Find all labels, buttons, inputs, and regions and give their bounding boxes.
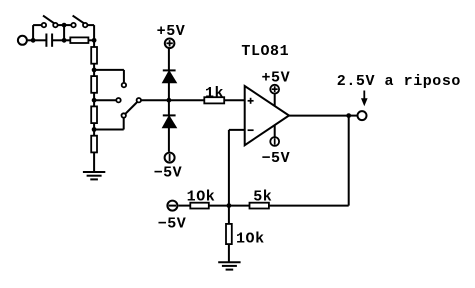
wire D1 to +5V	[168, 49, 170, 71]
tap1 wire down	[123, 70, 125, 82]
wire op-amp output to node E	[289, 115, 349, 117]
tap3 junction	[92, 127, 97, 132]
node C junction	[92, 38, 97, 43]
resistor R1 horizontal	[70, 37, 88, 43]
selector SW1 pole contact	[137, 98, 141, 102]
op-amp U1 minus input marker	[248, 129, 254, 131]
wire to op-amp inverting input	[229, 129, 245, 131]
tap2 junction	[92, 98, 97, 103]
wire D2 to -5V	[168, 128, 170, 152]
ground GND2	[218, 262, 240, 269]
tap1 junction	[92, 68, 97, 73]
switch S2 arm	[73, 16, 84, 24]
diode D2	[163, 115, 177, 127]
svg-text:+5V: +5V	[157, 23, 186, 40]
wire R6 to op-amp	[224, 99, 245, 101]
+5V supply terminal	[165, 39, 175, 49]
switch S2 left contact	[71, 23, 75, 27]
node D junction	[167, 98, 172, 103]
wire R9 to ground	[228, 244, 230, 262]
wire node D to R6	[169, 99, 204, 101]
-5V supply terminal	[165, 153, 175, 163]
tap3 wire right	[94, 129, 124, 131]
wire node E to output terminal	[349, 115, 358, 117]
wire node D down to D2	[168, 100, 170, 115]
svg-text:−5V: −5V	[154, 165, 183, 182]
wire R5 to ground	[93, 152, 95, 172]
op-amp +5V supply terminal	[270, 85, 279, 94]
wire node C down to R2	[93, 40, 95, 47]
ground GND1	[83, 172, 105, 179]
svg-text:5k: 5k	[253, 188, 272, 205]
resistor R2 ladder top	[91, 47, 97, 64]
wire to switch S2 left contact	[64, 24, 71, 26]
resistor R4 ladder	[91, 106, 97, 123]
feedback wire node E down	[348, 116, 350, 206]
wire node F up	[228, 130, 230, 206]
wire R8 to -5V terminal	[178, 205, 190, 207]
tap3 contact	[122, 113, 126, 117]
svg-text:+5V: +5V	[261, 70, 290, 87]
resistor R5 ladder bottom	[91, 136, 97, 153]
wire node B to resistor R1	[64, 39, 70, 41]
-5V bias terminal	[167, 201, 177, 211]
tap2 contact	[116, 98, 120, 102]
op-amp U1 TL081	[245, 86, 289, 145]
svg-text:2.5V a riposo: 2.5V a riposo	[337, 73, 461, 90]
tap3 wire up	[123, 118, 125, 130]
node B junction	[62, 38, 67, 43]
tap1 wire right	[94, 69, 124, 71]
svg-text:1Ok: 1Ok	[187, 189, 216, 206]
resistor R3 ladder	[91, 76, 97, 93]
wire selector to node D	[141, 99, 169, 101]
wire S2 to corner	[88, 24, 95, 26]
wire R1 to node C	[88, 39, 94, 41]
node A junction	[31, 38, 36, 43]
wire S1 to node B top	[58, 24, 64, 26]
wire node F down to R9	[228, 206, 230, 224]
switch S1 right contact	[53, 23, 57, 27]
annotation arrow	[361, 91, 368, 107]
wire node B top down	[63, 25, 65, 40]
diode D1	[163, 70, 177, 82]
resistor R8 10k	[190, 203, 209, 209]
svg-text:1k: 1k	[205, 85, 224, 102]
svg-text:−5V: −5V	[158, 216, 187, 233]
wire capacitor to node B	[52, 39, 64, 41]
output terminal J2	[358, 111, 367, 120]
op-amp U1 plus input marker	[248, 98, 254, 104]
svg-text:1Ok: 1Ok	[236, 231, 265, 248]
switch S1 arm	[43, 16, 54, 24]
wire corner down to node C	[93, 25, 95, 40]
wire node A to capacitor	[33, 39, 46, 41]
selector SW1 arm	[125, 102, 137, 114]
op-amp -5V supply terminal	[270, 137, 279, 146]
capacitor C1	[46, 34, 52, 47]
switch S2 right contact	[83, 23, 87, 27]
svg-text:−5V: −5V	[261, 150, 290, 167]
wire node D up to D1	[168, 83, 170, 101]
resistor R9 10k vertical	[226, 224, 232, 244]
wire R2 to tap1	[93, 64, 95, 76]
node E junction	[346, 113, 351, 118]
wire input to node A	[28, 39, 33, 41]
op-amp +5V pin wire	[274, 94, 276, 106]
tap1 contact	[122, 83, 126, 87]
wire to switch S1 left contact	[33, 24, 41, 26]
tap2 wire right	[94, 99, 116, 101]
resistor R7 5k	[250, 203, 269, 209]
op-amp -5V pin wire	[274, 125, 276, 137]
wire R4 to tap3	[93, 123, 95, 136]
wire node F to R8	[209, 205, 229, 207]
resistor R6 1k	[204, 97, 224, 103]
switch S1 left contact	[42, 23, 46, 27]
feedback wire bottom	[269, 205, 349, 207]
node B top junction	[62, 23, 67, 28]
svg-text:TLO81: TLO81	[241, 43, 289, 60]
wire node A up	[32, 25, 34, 40]
wire R7 to node F	[229, 205, 250, 207]
wire R3 to tap2	[93, 93, 95, 107]
node F junction	[227, 203, 232, 208]
input terminal J1	[18, 36, 27, 45]
